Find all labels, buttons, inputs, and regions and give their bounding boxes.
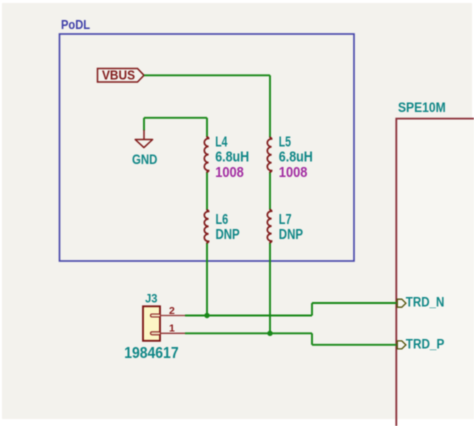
wire GND stub [143,118,145,131]
wire L6 to junction [206,243,208,316]
wire VBUS to L5 column [144,74,270,76]
hierarchical sheet SPE10M border [396,119,474,426]
svg-text:6.8uH: 6.8uH [279,150,313,166]
J3 contact nub pin2 [151,314,161,317]
svg-text:1: 1 [169,322,175,334]
junction at pin1/L7 [267,331,272,336]
wire pin2 horizontal [185,315,312,317]
inductor L4 [204,137,208,172]
svg-text:1008: 1008 [215,165,244,181]
inductor L6 [204,210,208,243]
wire step down [311,333,313,345]
inductor L7 [267,210,271,243]
J3 pin 2 line [161,315,186,317]
connector J3 body [143,306,160,341]
svg-text:1008: 1008 [279,165,308,181]
J3 pin 1 line [161,332,186,334]
wire down to L4 [206,118,208,137]
svg-text:L6: L6 [216,212,229,228]
svg-text:VBUS: VBUS [102,69,135,83]
svg-text:GND: GND [132,151,157,167]
svg-text:J3: J3 [145,291,158,305]
svg-text:TRD_N: TRD_N [406,295,445,310]
svg-text:2: 2 [169,305,175,317]
wire to TRD_P [312,344,397,346]
junction at pin2/L6 [204,313,209,318]
wire GND horizontal [144,117,207,119]
svg-text:L7: L7 [279,212,292,228]
sheet pin TRD_P shape [397,341,406,349]
hierarchical sheet SPE10M fill [397,119,474,419]
wire vertical down to L5 [269,75,271,137]
wire pin1 horizontal [185,332,312,334]
J3 contact nub pin1 [151,332,161,335]
svg-text:PoDL: PoDL [61,18,90,32]
svg-text:1984617: 1984617 [124,345,178,362]
power symbol GND stub [143,130,145,140]
svg-text:TRD_P: TRD_P [406,336,445,351]
sheet pin TRD_N shape [397,299,406,307]
svg-text:DNP: DNP [279,227,303,243]
svg-text:DNP: DNP [216,227,240,243]
inductor L5 [267,138,271,173]
svg-text:SPE10M: SPE10M [398,100,446,115]
wire step up [311,303,313,316]
wire L7 to junction [269,243,271,334]
power symbol GND triangle [135,140,152,148]
graphic box PoDL [60,34,355,261]
wire L4 to L6 [206,172,208,210]
svg-text:L4: L4 [215,134,227,150]
svg-text:L5: L5 [279,134,291,150]
svg-text:6.8uH: 6.8uH [215,150,249,166]
global label VBUS shape [98,69,145,83]
wire L5 to L7 [269,172,271,210]
wire to TRD_N [312,302,397,304]
